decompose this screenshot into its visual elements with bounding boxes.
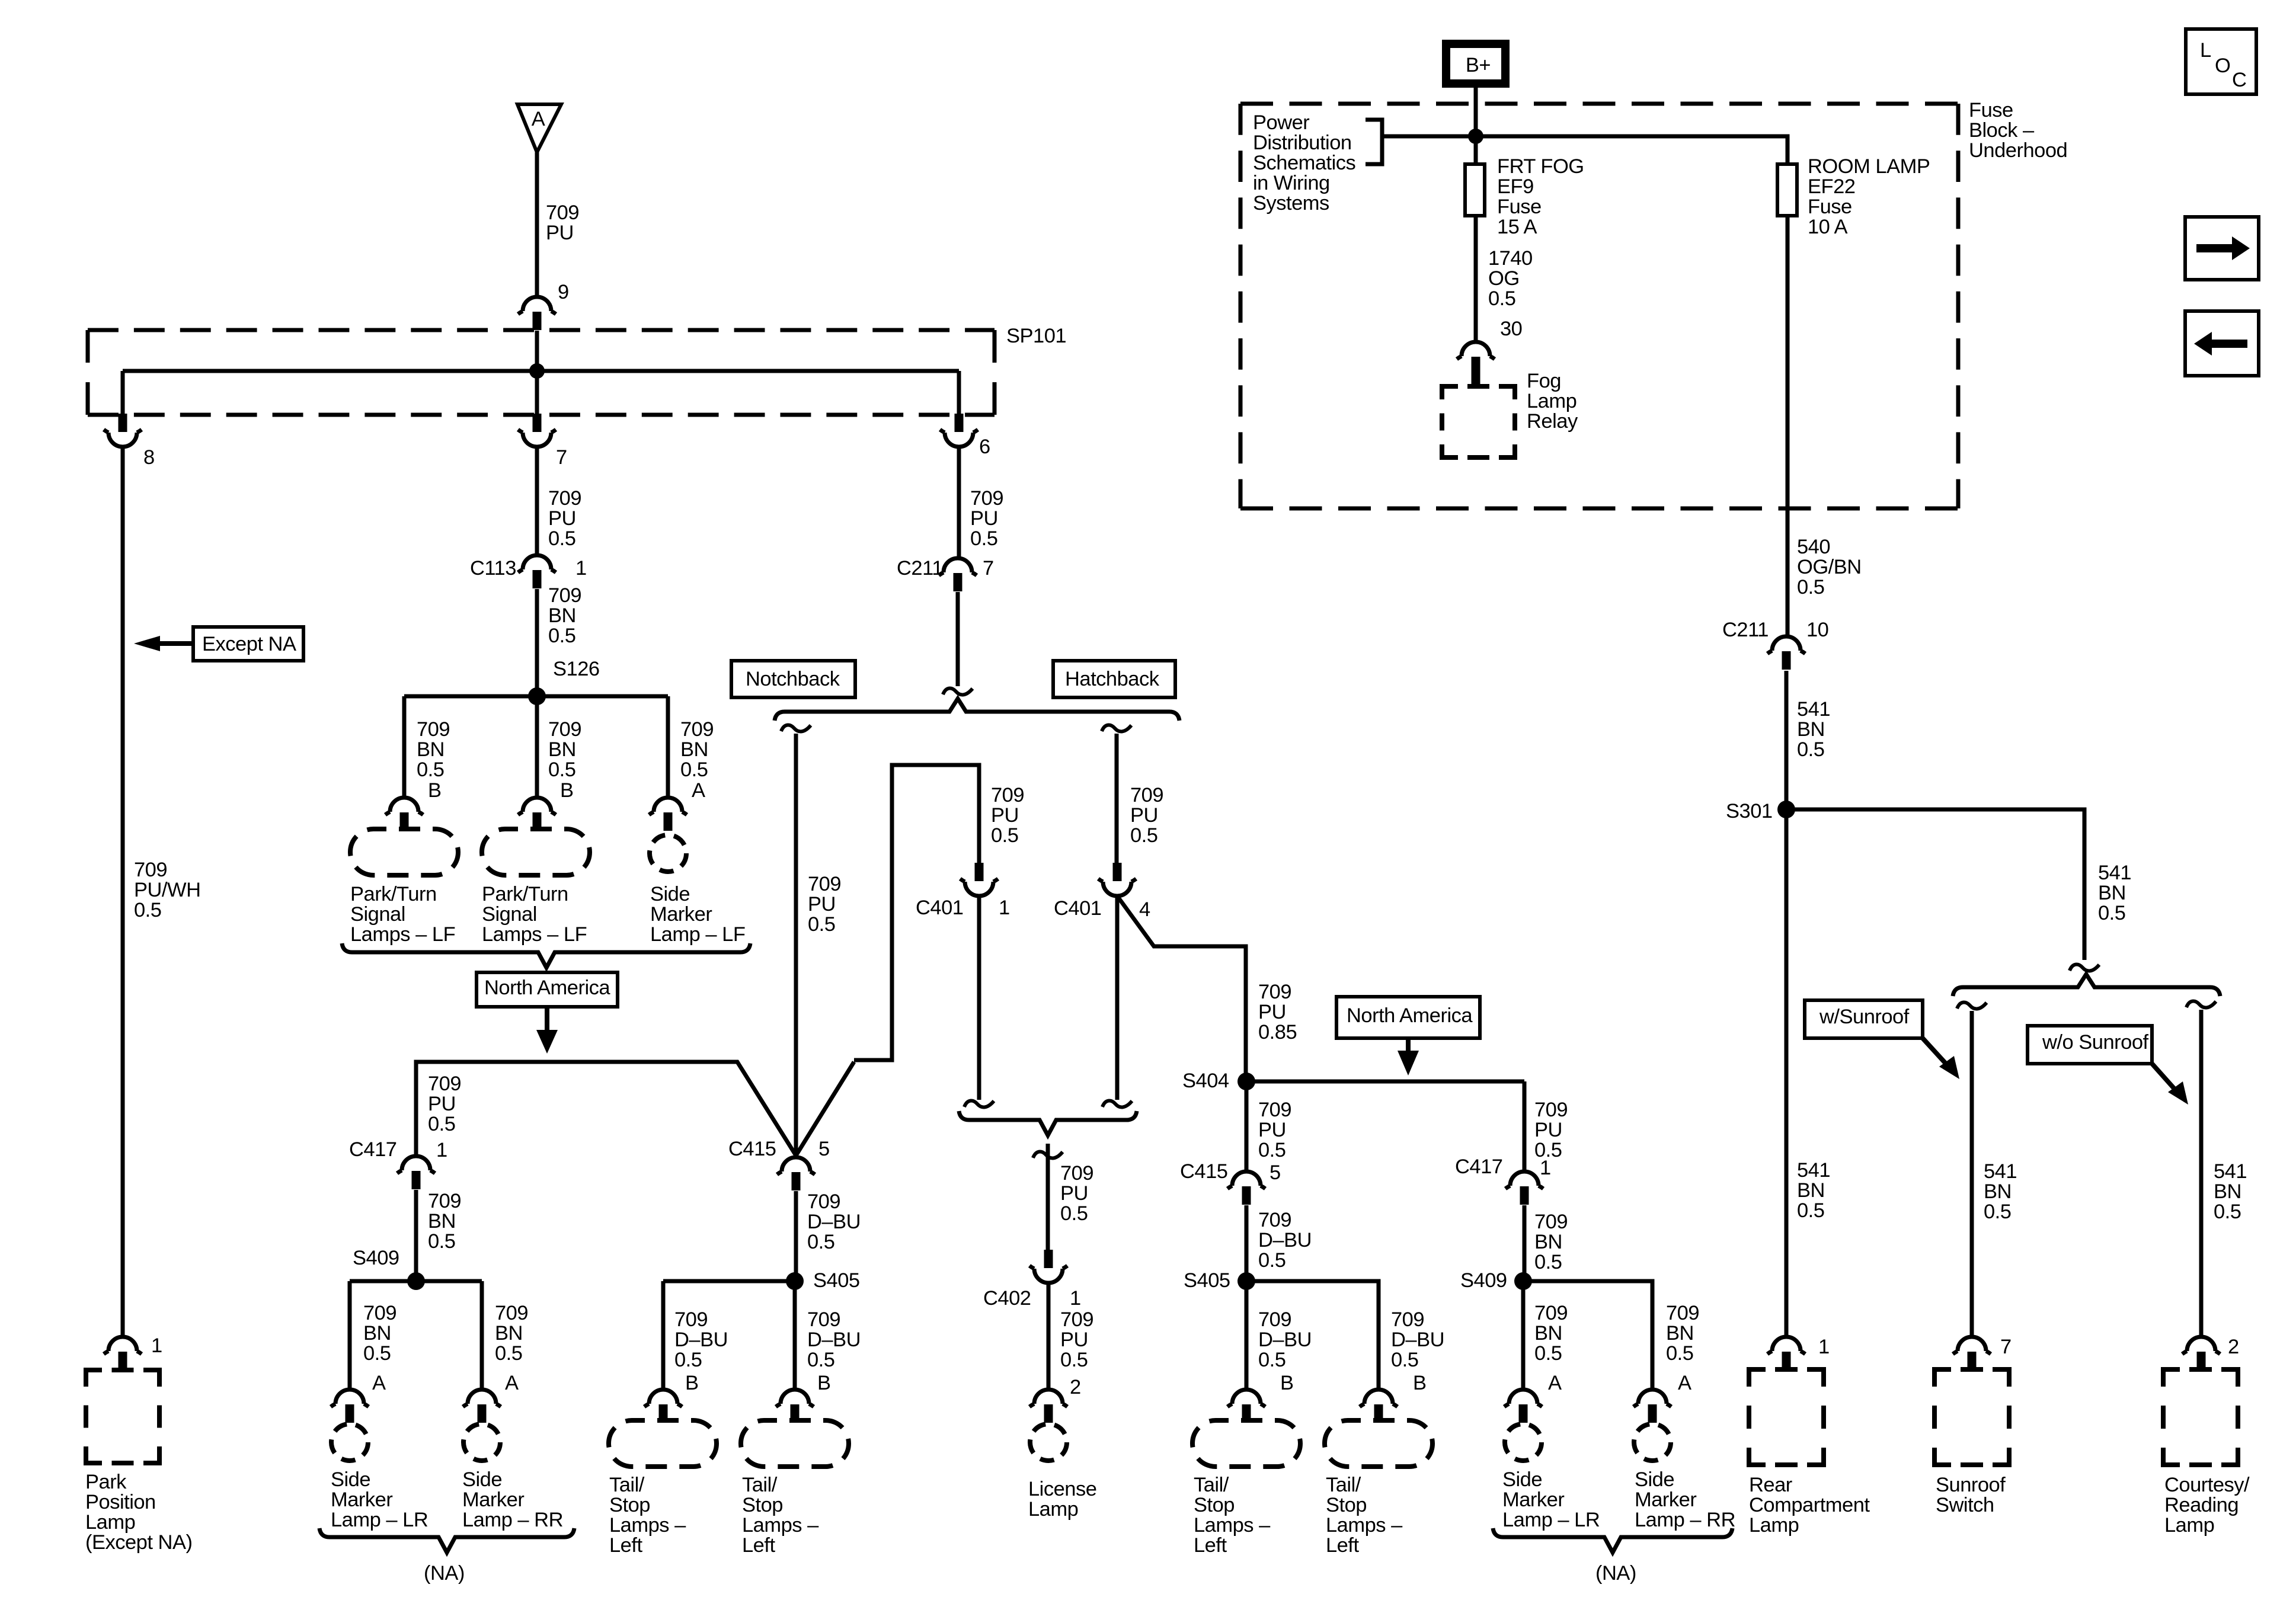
wire EF22 down to C211 pin 10 <box>1786 216 1790 636</box>
Fuse Block - Underhood dashed box <box>1240 102 1958 106</box>
svg-text:709: 709 <box>807 1308 840 1331</box>
svg-text:PU/WH: PU/WH <box>134 879 201 901</box>
svg-text:0.5: 0.5 <box>2098 902 2125 924</box>
park position lamp dashed box <box>86 1370 159 1463</box>
svg-text:Fuse: Fuse <box>1969 99 2013 121</box>
wire S301 to rear compartment lamp <box>1785 809 1789 1337</box>
svg-text:541: 541 <box>2098 862 2131 884</box>
svg-text:Tail/: Tail/ <box>609 1474 645 1496</box>
svg-text:0.5: 0.5 <box>991 824 1018 847</box>
connector tail lamp 3 pin B <box>1227 1390 1265 1407</box>
svg-text:Fuse: Fuse <box>1808 196 1852 218</box>
wire S409 to side marker LR right <box>1521 1281 1526 1390</box>
svg-text:B: B <box>685 1372 699 1394</box>
brace sunroof split <box>1953 974 2220 996</box>
connector SP101 pin 6 <box>955 414 964 432</box>
North America box 1 <box>477 972 618 1007</box>
svg-text:Fuse: Fuse <box>1497 196 1542 218</box>
svg-text:PU: PU <box>808 893 836 916</box>
svg-text:A: A <box>372 1372 386 1394</box>
svg-text:Except NA: Except NA <box>202 633 296 655</box>
wire B+ down to bus <box>1474 88 1478 164</box>
svg-text:C401: C401 <box>916 897 963 919</box>
svg-text:A: A <box>692 779 705 802</box>
wire pin 7 to C113 <box>535 447 539 555</box>
splice S405 left <box>786 1272 804 1290</box>
svg-text:Underhood: Underhood <box>1969 139 2067 162</box>
svg-text:0.5: 0.5 <box>1984 1201 2011 1223</box>
svg-text:0.5: 0.5 <box>1391 1349 1418 1371</box>
Notchback box <box>731 661 855 697</box>
svg-text:4: 4 <box>1139 898 1150 921</box>
svg-text:Left: Left <box>1194 1534 1227 1557</box>
svg-text:1: 1 <box>1818 1336 1830 1358</box>
svg-text:Left: Left <box>609 1534 642 1557</box>
splice S409 right <box>1514 1272 1532 1290</box>
side marker lamp LF <box>650 835 686 872</box>
svg-text:ROOM LAMP: ROOM LAMP <box>1808 155 1930 178</box>
svg-text:Lamps –: Lamps – <box>1194 1514 1271 1537</box>
connector C417 pin 1 right <box>1505 1172 1543 1189</box>
fog lamp relay dashed box <box>1442 386 1515 457</box>
svg-text:Lamps –: Lamps – <box>609 1514 686 1537</box>
svg-text:1: 1 <box>151 1334 162 1357</box>
svg-text:PU: PU <box>970 507 998 530</box>
back arrow box <box>2185 311 2259 376</box>
wire S405 to tail lamp 2 <box>793 1281 797 1390</box>
svg-text:Side: Side <box>650 883 690 905</box>
svg-text:PU: PU <box>1534 1119 1562 1141</box>
connector C401 pin 4 <box>1113 863 1122 881</box>
svg-text:Stop: Stop <box>609 1494 650 1516</box>
wire sunroof branch down <box>1970 1011 1974 1337</box>
svg-text:0.5: 0.5 <box>363 1342 391 1365</box>
svg-text:Side: Side <box>1635 1468 1674 1491</box>
connector side marker RR left <box>463 1390 501 1407</box>
svg-text:Sunroof: Sunroof <box>1936 1474 2006 1496</box>
wire C211-10 to S301 <box>1785 671 1789 809</box>
svg-text:BN: BN <box>1984 1180 2012 1203</box>
svg-text:709: 709 <box>970 487 1003 510</box>
wire break w/o sunroof branch <box>2186 1001 2216 1008</box>
svg-text:Lamp: Lamp <box>85 1511 135 1534</box>
svg-text:1: 1 <box>436 1139 447 1161</box>
svg-text:0.5: 0.5 <box>1258 1249 1285 1272</box>
brace license lamp group <box>959 1111 1137 1135</box>
svg-text:EF22: EF22 <box>1808 175 1855 198</box>
svg-text:709: 709 <box>674 1308 708 1331</box>
svg-text:0.5: 0.5 <box>807 1231 834 1253</box>
connector C415 pin 5 left <box>777 1157 815 1174</box>
connector SP101 pin 7 <box>533 414 542 432</box>
svg-text:1: 1 <box>999 897 1010 919</box>
connector side marker RR right <box>1633 1390 1671 1407</box>
svg-text:7: 7 <box>2000 1336 2012 1358</box>
svg-text:B: B <box>428 779 442 802</box>
connector license lamp pin 2 <box>1029 1390 1067 1407</box>
svg-text:C: C <box>2232 69 2246 91</box>
splice S301 <box>1777 801 1795 818</box>
connector side marker LR left <box>331 1390 369 1407</box>
svg-text:0.85: 0.85 <box>1258 1021 1297 1044</box>
svg-text:North America: North America <box>484 977 610 999</box>
splice S126 <box>528 687 546 705</box>
svg-text:BN: BN <box>548 738 576 761</box>
svg-text:License: License <box>1028 1478 1096 1500</box>
svg-text:C113: C113 <box>470 557 516 580</box>
svg-text:Lamp – LR: Lamp – LR <box>331 1509 428 1531</box>
svg-text:C417: C417 <box>349 1138 396 1161</box>
svg-text:PU: PU <box>548 507 576 530</box>
svg-text:Tail/: Tail/ <box>1194 1474 1229 1496</box>
svg-text:Rear: Rear <box>1749 1474 1792 1496</box>
svg-text:Notchback: Notchback <box>746 668 840 690</box>
wire break notchback branch <box>781 725 811 732</box>
svg-text:0.5: 0.5 <box>548 625 575 647</box>
forward arrow box <box>2185 217 2259 280</box>
park/turn signal lamp 2 <box>482 829 590 875</box>
svg-text:BN: BN <box>548 604 576 627</box>
side marker lamp LR left <box>331 1424 368 1461</box>
svg-text:0.5: 0.5 <box>1258 1139 1285 1161</box>
svg-text:1: 1 <box>1070 1287 1081 1310</box>
wire C417 to S409 left <box>414 1190 418 1281</box>
svg-text:D–BU: D–BU <box>1258 1229 1312 1251</box>
svg-text:0.5: 0.5 <box>970 527 997 550</box>
svg-text:S409: S409 <box>1460 1269 1507 1292</box>
side marker lamp RR left <box>463 1424 500 1461</box>
connector park/turn lamp 1 pin B <box>385 798 423 815</box>
svg-text:w/Sunroof: w/Sunroof <box>1819 1006 1910 1028</box>
wire break license right <box>1102 1101 1132 1108</box>
svg-text:C401: C401 <box>1054 897 1101 920</box>
wire C401-4 to license split <box>1115 896 1120 1100</box>
svg-text:2: 2 <box>2228 1336 2239 1358</box>
svg-text:C415: C415 <box>1180 1160 1227 1183</box>
svg-text:709: 709 <box>548 487 581 510</box>
connector SP101 pin 9 <box>518 297 556 314</box>
svg-text:OG: OG <box>1488 267 1520 290</box>
svg-text:Side: Side <box>462 1468 502 1491</box>
svg-text:0.5: 0.5 <box>2214 1201 2241 1223</box>
svg-text:1: 1 <box>1540 1157 1551 1179</box>
svg-text:(NA): (NA) <box>1595 1562 1636 1585</box>
connector sunroof switch pin 7 <box>1953 1337 1991 1354</box>
svg-text:S405: S405 <box>1184 1269 1230 1292</box>
svg-text:Lamp – RR: Lamp – RR <box>462 1509 563 1531</box>
wire break sunroof branch <box>1957 1003 1987 1009</box>
svg-text:Marker: Marker <box>331 1489 392 1511</box>
svg-text:0.5: 0.5 <box>1060 1202 1088 1225</box>
svg-text:Lamp: Lamp <box>1527 390 1576 412</box>
wire S409 to side marker RR left <box>480 1281 484 1390</box>
svg-text:541: 541 <box>1984 1160 2017 1183</box>
svg-text:9: 9 <box>558 281 569 303</box>
power feed B+ box <box>1446 44 1505 84</box>
svg-text:0.5: 0.5 <box>1130 824 1157 847</box>
svg-text:0.5: 0.5 <box>680 758 708 781</box>
svg-text:in Wiring: in Wiring <box>1253 172 1330 194</box>
svg-text:541: 541 <box>1797 1159 1830 1182</box>
svg-text:BN: BN <box>495 1322 523 1345</box>
svg-text:OG/BN: OG/BN <box>1797 556 1862 578</box>
svg-text:PU: PU <box>1130 804 1158 827</box>
svg-text:BN: BN <box>680 738 708 761</box>
connector C415 pin 5 right <box>1227 1172 1265 1189</box>
connector rear compartment lamp pin 1 <box>1767 1337 1805 1354</box>
svg-text:0.5: 0.5 <box>1060 1349 1088 1371</box>
svg-text:S126: S126 <box>553 658 600 680</box>
svg-text:PU: PU <box>991 804 1019 827</box>
wire C113 to S126 <box>535 589 539 696</box>
node bus junction <box>1468 129 1483 144</box>
svg-text:Courtesy/: Courtesy/ <box>2164 1474 2250 1496</box>
svg-text:709: 709 <box>1258 1308 1291 1331</box>
wire C402 to license lamp <box>1047 1283 1051 1390</box>
wire break hatchback branch <box>1102 725 1131 732</box>
svg-text:BN: BN <box>2214 1180 2241 1203</box>
svg-text:FRT FOG: FRT FOG <box>1497 155 1584 178</box>
wire S404 to C415 right <box>1245 1081 1249 1172</box>
svg-text:Fog: Fog <box>1527 370 1561 392</box>
svg-text:709: 709 <box>1060 1162 1093 1185</box>
rear compartment lamp dashed box <box>1749 1369 1824 1465</box>
svg-text:Power: Power <box>1253 111 1309 134</box>
svg-text:540: 540 <box>1797 536 1830 558</box>
svg-text:BN: BN <box>1797 718 1825 741</box>
svg-text:B: B <box>1280 1372 1294 1394</box>
svg-text:Signal: Signal <box>482 903 537 926</box>
voltage reference triangle A <box>517 104 561 152</box>
svg-text:A: A <box>532 108 545 130</box>
svg-text:0.5: 0.5 <box>548 527 575 550</box>
svg-text:Left: Left <box>1326 1534 1359 1557</box>
svg-text:6: 6 <box>979 436 990 458</box>
svg-text:10 A: 10 A <box>1808 216 1848 238</box>
Except NA box <box>193 627 303 661</box>
svg-text:D–BU: D–BU <box>1391 1329 1444 1351</box>
svg-text:709: 709 <box>1391 1308 1424 1331</box>
connector tail lamp 2 pin B <box>776 1390 814 1407</box>
svg-text:709: 709 <box>1258 1209 1291 1231</box>
connector side marker LF pin A <box>649 798 687 815</box>
svg-text:10: 10 <box>1806 619 1828 641</box>
svg-text:BN: BN <box>1534 1231 1562 1253</box>
svg-text:L: L <box>2200 39 2211 62</box>
wire break license feed <box>1033 1152 1063 1158</box>
svg-text:w/o Sunroof: w/o Sunroof <box>2042 1031 2149 1054</box>
wire S301 branch to sunroof split <box>1786 809 2084 960</box>
svg-text:Left: Left <box>742 1534 775 1557</box>
svg-text:1: 1 <box>575 557 587 580</box>
wire license split to C402 <box>1046 1144 1050 1250</box>
svg-text:EF9: EF9 <box>1497 175 1534 198</box>
svg-text:Block –: Block – <box>1969 119 2035 142</box>
svg-text:Relay: Relay <box>1527 410 1578 433</box>
svg-text:BN: BN <box>417 738 445 761</box>
svg-text:Position: Position <box>85 1491 156 1513</box>
svg-text:Marker: Marker <box>1502 1489 1564 1511</box>
wire S126 to park/turn lamp 1 <box>402 696 407 798</box>
svg-text:Compartment: Compartment <box>1749 1494 1870 1516</box>
connector courtesy lamp pin 2 <box>2182 1337 2220 1354</box>
svg-text:Lamps – LF: Lamps – LF <box>350 923 455 946</box>
svg-text:Lamp – RR: Lamp – RR <box>1635 1509 1735 1531</box>
svg-text:7: 7 <box>556 446 567 469</box>
wire C401-1 loop <box>854 765 979 1060</box>
svg-text:709: 709 <box>1666 1302 1699 1324</box>
svg-text:Hatchback: Hatchback <box>1065 668 1160 690</box>
svg-text:709: 709 <box>1258 1099 1291 1121</box>
North America box 2 <box>1336 997 1480 1038</box>
svg-text:Park/Turn: Park/Turn <box>350 883 437 905</box>
svg-text:0.5: 0.5 <box>1797 576 1824 598</box>
connector SP101 pin 8 <box>119 414 127 432</box>
svg-text:0.5: 0.5 <box>1258 1349 1285 1371</box>
svg-text:1740: 1740 <box>1488 247 1533 270</box>
svg-text:0.5: 0.5 <box>1534 1342 1562 1365</box>
svg-text:PU: PU <box>1258 1001 1286 1023</box>
svg-text:709: 709 <box>134 859 167 881</box>
connector C211 pin 7 <box>939 558 977 575</box>
brace NA side markers left <box>319 1528 574 1553</box>
wire triangle A to SP101 pin 9 <box>535 152 539 297</box>
svg-text:(NA): (NA) <box>424 1562 465 1585</box>
wire bus to room lamp fuse <box>1382 136 1787 164</box>
svg-text:(Except NA): (Except NA) <box>85 1531 192 1554</box>
arrow North America 1 <box>545 1007 549 1031</box>
svg-text:S405: S405 <box>813 1269 860 1292</box>
splice S404 <box>1237 1073 1255 1090</box>
svg-text:0.5: 0.5 <box>1797 1199 1824 1222</box>
svg-text:0.5: 0.5 <box>1534 1251 1562 1273</box>
svg-text:B: B <box>817 1372 831 1394</box>
svg-text:709: 709 <box>363 1302 396 1324</box>
svg-text:C211: C211 <box>1722 619 1769 641</box>
w/Sunroof option box <box>1805 1000 1923 1038</box>
svg-text:D–BU: D–BU <box>807 1211 861 1233</box>
svg-text:BN: BN <box>1666 1322 1694 1345</box>
svg-text:709: 709 <box>1130 784 1163 806</box>
fuse EF22 ROOM LAMP 10A <box>1777 164 1797 216</box>
arrow w/o Sunroof <box>2152 1064 2176 1091</box>
fuse EF9 FRT FOG 15A <box>1465 164 1485 216</box>
svg-text:709: 709 <box>428 1073 461 1095</box>
svg-text:709: 709 <box>1534 1211 1568 1233</box>
wire S126 to park/turn lamp 2 <box>535 696 539 798</box>
svg-text:0.5: 0.5 <box>495 1342 522 1365</box>
svg-text:709: 709 <box>807 1190 840 1213</box>
license lamp <box>1030 1424 1067 1461</box>
wire S405 to tail lamp 1 <box>661 1281 666 1390</box>
svg-text:0.5: 0.5 <box>674 1349 702 1371</box>
svg-text:Stop: Stop <box>742 1494 783 1516</box>
arrow w/Sunroof <box>1923 1038 1948 1065</box>
svg-text:541: 541 <box>2214 1160 2247 1183</box>
svg-text:Lamp – LF: Lamp – LF <box>650 923 745 946</box>
wire NA run to C417 and C415 left <box>416 1062 854 1156</box>
connector fog lamp relay pin 30 <box>1457 342 1495 359</box>
svg-text:0.5: 0.5 <box>1666 1342 1693 1365</box>
svg-text:0.5: 0.5 <box>428 1113 455 1135</box>
connector C211 pin 10 <box>1767 636 1805 654</box>
svg-text:B: B <box>560 779 574 802</box>
arrow Except NA <box>159 641 193 646</box>
svg-text:B: B <box>1413 1372 1427 1394</box>
park/turn signal lamp 1 <box>350 829 458 875</box>
svg-text:Schematics: Schematics <box>1253 152 1355 174</box>
svg-text:Park: Park <box>85 1471 127 1493</box>
svg-text:PU: PU <box>1060 1182 1088 1205</box>
svg-text:30: 30 <box>1500 318 1522 340</box>
wire S126 to side marker LF <box>666 696 670 798</box>
svg-text:B+: B+ <box>1466 54 1491 76</box>
svg-text:Stop: Stop <box>1194 1494 1235 1516</box>
wire courtesy lamp branch down <box>2199 1010 2204 1337</box>
svg-text:BN: BN <box>363 1322 391 1345</box>
arrow North America 2 <box>1406 1038 1411 1052</box>
svg-text:0.5: 0.5 <box>417 758 444 781</box>
splice pack SP101 dashed box <box>88 328 994 332</box>
svg-text:Lamp: Lamp <box>2164 1514 2214 1537</box>
Hatchback box <box>1053 661 1175 697</box>
svg-text:PU: PU <box>546 222 574 244</box>
svg-text:0.5: 0.5 <box>428 1230 455 1253</box>
svg-text:Lamps – LF: Lamps – LF <box>482 923 587 946</box>
brace body style split <box>775 699 1179 721</box>
svg-text:S409: S409 <box>353 1247 399 1269</box>
splice S409 left <box>407 1272 425 1290</box>
svg-text:Marker: Marker <box>1635 1489 1696 1511</box>
svg-text:709: 709 <box>991 784 1024 806</box>
sunroof switch dashed box <box>1934 1369 2009 1465</box>
wire C401-4 to S404 <box>1117 896 1246 1081</box>
svg-text:A: A <box>1548 1372 1562 1394</box>
svg-text:Systems: Systems <box>1253 192 1329 215</box>
svg-text:0.5: 0.5 <box>1488 287 1515 310</box>
wire S404 to C417 right <box>1523 1081 1527 1172</box>
wire C401-1 to license split <box>977 896 981 1100</box>
svg-text:709: 709 <box>1258 981 1291 1003</box>
svg-text:Marker: Marker <box>462 1489 524 1511</box>
svg-text:0.5: 0.5 <box>134 899 161 921</box>
svg-text:S301: S301 <box>1726 800 1773 822</box>
svg-text:Side: Side <box>1502 1468 1542 1491</box>
brace NA side markers right <box>1493 1528 1732 1553</box>
connector C113 pin 1 <box>518 555 556 572</box>
svg-text:PU: PU <box>1258 1119 1286 1141</box>
svg-text:A: A <box>1678 1372 1691 1394</box>
LOC reference box <box>2186 29 2256 94</box>
svg-text:709: 709 <box>548 584 581 607</box>
svg-text:709: 709 <box>417 718 450 741</box>
svg-text:D–BU: D–BU <box>807 1329 861 1351</box>
svg-text:541: 541 <box>1797 698 1830 721</box>
svg-text:5: 5 <box>818 1138 830 1160</box>
connector tail lamp 1 pin B <box>644 1390 682 1407</box>
svg-text:Lamp – LR: Lamp – LR <box>1502 1509 1600 1531</box>
svg-text:709: 709 <box>1060 1308 1093 1331</box>
connector C402 pin 1 <box>1044 1250 1053 1268</box>
svg-text:A: A <box>505 1372 519 1394</box>
svg-text:O: O <box>2215 55 2230 77</box>
w/o Sunroof option box <box>2028 1026 2152 1064</box>
svg-text:709: 709 <box>548 718 581 741</box>
svg-text:Marker: Marker <box>650 903 712 926</box>
connector tail lamp 4 pin B <box>1360 1390 1398 1407</box>
svg-text:Distribution: Distribution <box>1253 132 1352 154</box>
side marker lamp RR right <box>1634 1424 1671 1461</box>
